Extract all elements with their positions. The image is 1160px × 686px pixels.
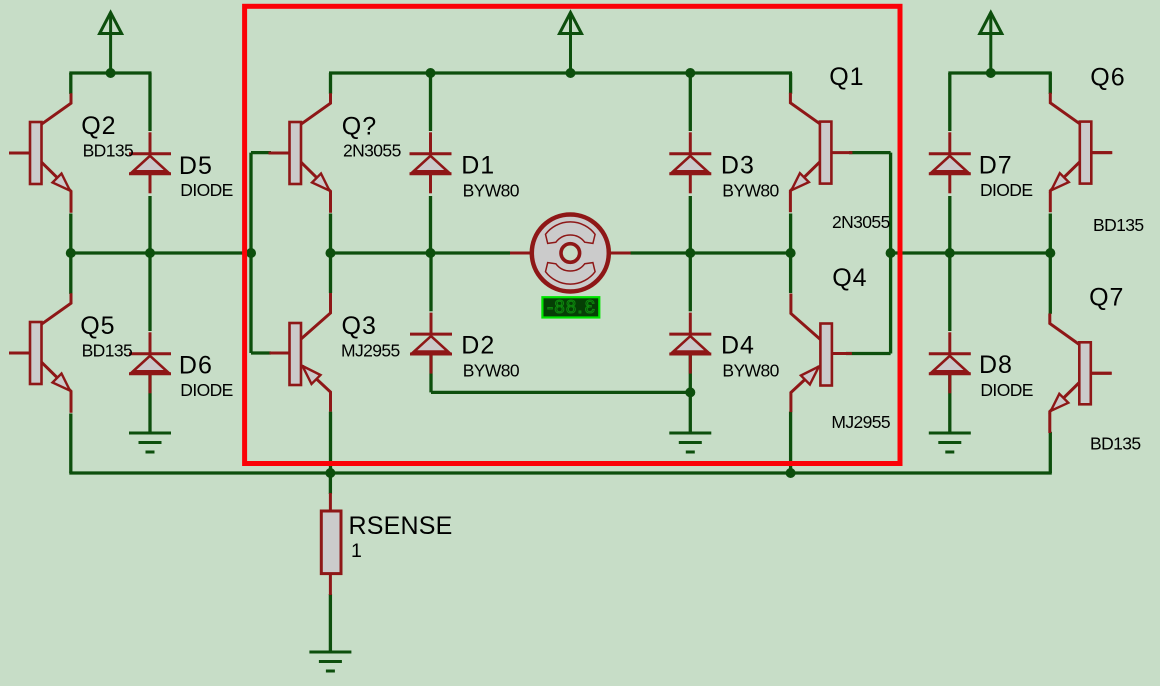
svg-text:BD135: BD135 [82, 341, 133, 361]
svg-text:BD135: BD135 [1093, 215, 1144, 235]
svg-text:-88.: -88. [547, 296, 584, 317]
svg-text:D2: D2 [461, 332, 495, 360]
svg-text:Q3: Q3 [342, 312, 377, 340]
svg-text:D5: D5 [179, 152, 213, 180]
svg-text:3: 3 [585, 296, 595, 317]
svg-text:2N3055: 2N3055 [343, 141, 401, 161]
svg-text:DIODE: DIODE [980, 380, 1032, 400]
svg-text:D8: D8 [979, 351, 1013, 379]
svg-text:DIODE: DIODE [980, 180, 1032, 200]
svg-text:RSENSE: RSENSE [349, 512, 453, 540]
svg-text:MJ2955: MJ2955 [831, 412, 890, 432]
svg-text:Q7: Q7 [1089, 284, 1124, 312]
svg-text:BYW80: BYW80 [463, 180, 520, 200]
svg-text:Q2: Q2 [81, 112, 116, 140]
svg-text:D3: D3 [721, 152, 755, 180]
svg-text:DIODE: DIODE [180, 180, 232, 200]
svg-text:D7: D7 [979, 152, 1013, 180]
svg-text:MJ2955: MJ2955 [341, 341, 400, 361]
svg-text:DIODE: DIODE [180, 380, 232, 400]
svg-text:Q4: Q4 [832, 264, 867, 292]
svg-text:Q?: Q? [342, 113, 377, 141]
svg-text:D6: D6 [179, 352, 213, 380]
svg-text:BYW80: BYW80 [722, 180, 779, 200]
svg-text:D4: D4 [721, 332, 755, 360]
svg-text:Q1: Q1 [829, 63, 864, 91]
svg-text:D1: D1 [461, 152, 495, 180]
svg-text:BD135: BD135 [1090, 434, 1141, 454]
svg-text:Q5: Q5 [80, 312, 115, 340]
svg-text:Q6: Q6 [1090, 64, 1125, 92]
svg-text:BYW80: BYW80 [463, 360, 520, 380]
svg-text:1: 1 [351, 540, 362, 562]
svg-text:2N3055: 2N3055 [832, 212, 890, 232]
svg-text:BYW80: BYW80 [722, 360, 779, 380]
svg-text:BD135: BD135 [83, 141, 134, 161]
